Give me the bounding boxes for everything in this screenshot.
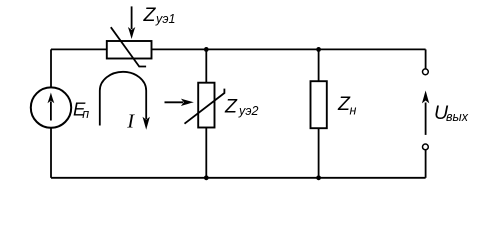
- wire right vertical to top terminal: [425, 49, 427, 69]
- arrow (control) into Z_uэ2: [165, 99, 194, 106]
- arrow (control) into Z_uэ1: [128, 6, 135, 39]
- source E_п circle: [31, 87, 71, 127]
- wire right vertical from bottom terminal: [425, 150, 427, 178]
- arrow U_вых (output voltage): [422, 91, 429, 135]
- svg-text:п: п: [82, 107, 89, 121]
- wire Z_n top branch: [318, 49, 320, 81]
- svg-text:уэ1: уэ1: [155, 12, 176, 26]
- junction dot top Z_n: [316, 47, 321, 52]
- terminal bottom (output): [423, 144, 429, 150]
- impedance Z_uэ2 (shunt, variable): [185, 83, 225, 128]
- current loop I: [100, 72, 150, 130]
- wire Z_uэ2 bottom branch: [205, 128, 207, 178]
- wire Z_n bottom branch: [318, 128, 320, 178]
- junction dot top Z_uэ2: [204, 47, 209, 52]
- wire top bus: [51, 48, 426, 50]
- wire Z_uэ2 top branch: [205, 49, 207, 82]
- svg-text:вых: вых: [446, 110, 469, 124]
- impedance Z_uэ1 (series, variable): [107, 27, 152, 66]
- svg-text:Z: Z: [224, 96, 238, 118]
- svg-text:Z: Z: [143, 4, 157, 26]
- label U_вых: [434, 102, 469, 124]
- label Z_uэ2: [224, 96, 259, 118]
- terminal top (output): [423, 69, 429, 75]
- wire left vertical (source to bottom bus): [50, 128, 52, 178]
- label Z_н: [337, 93, 357, 118]
- svg-text:уэ2: уэ2: [238, 104, 259, 118]
- load Z_n: [311, 81, 327, 128]
- svg-text:н: н: [350, 104, 357, 118]
- wire bottom bus: [51, 177, 426, 179]
- label E_п: [73, 99, 89, 121]
- junction dot bottom Z_n: [316, 175, 321, 180]
- junction dot bottom Z_uэ2: [204, 175, 209, 180]
- wire left vertical (source to top bus): [50, 49, 52, 87]
- label Z_uэ1: [143, 4, 176, 26]
- svg-text:I: I: [126, 110, 135, 132]
